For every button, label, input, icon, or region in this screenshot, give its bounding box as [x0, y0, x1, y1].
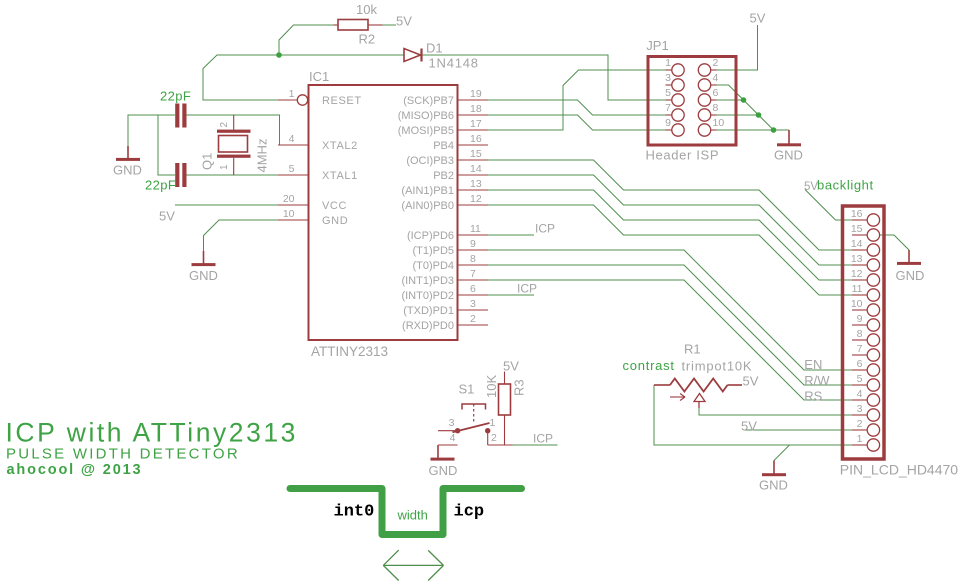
svg-text:ICP: ICP	[533, 432, 553, 446]
svg-text:1: 1	[219, 164, 230, 170]
svg-text:contrast: contrast	[623, 358, 675, 373]
svg-text:3: 3	[665, 72, 671, 84]
svg-text:13: 13	[470, 178, 482, 190]
svg-text:1: 1	[289, 88, 295, 100]
svg-text:icp: icp	[454, 503, 485, 522]
svg-text:(INT0)PD2: (INT0)PD2	[401, 290, 454, 302]
svg-text:16: 16	[851, 208, 863, 220]
svg-text:6: 6	[470, 283, 476, 295]
svg-text:GND: GND	[774, 148, 803, 163]
svg-text:14: 14	[851, 238, 863, 250]
svg-text:3: 3	[857, 403, 863, 415]
svg-text:(MOSI)PB5: (MOSI)PB5	[398, 125, 454, 137]
svg-text:6: 6	[713, 87, 719, 99]
svg-text:Header ISP: Header ISP	[646, 148, 720, 163]
svg-text:2: 2	[857, 418, 863, 430]
svg-text:8: 8	[857, 328, 863, 340]
svg-text:4: 4	[450, 432, 456, 444]
svg-text:RS: RS	[804, 389, 822, 404]
svg-text:backlight: backlight	[817, 178, 874, 193]
svg-text:(RXD)PD0: (RXD)PD0	[402, 320, 454, 332]
svg-text:R2: R2	[359, 31, 376, 46]
svg-text:10: 10	[851, 298, 863, 310]
svg-text:1N4148: 1N4148	[429, 56, 479, 71]
svg-text:2: 2	[713, 57, 719, 69]
svg-text:int0: int0	[334, 503, 375, 522]
svg-text:(AIN0)PB0: (AIN0)PB0	[401, 200, 454, 212]
svg-text:PB2: PB2	[433, 170, 454, 182]
svg-text:2: 2	[491, 432, 497, 444]
svg-text:GND: GND	[113, 163, 142, 178]
svg-text:JP1: JP1	[646, 38, 668, 53]
svg-text:XTAL2: XTAL2	[322, 140, 358, 152]
svg-text:18: 18	[470, 103, 482, 115]
svg-text:5: 5	[857, 373, 863, 385]
svg-text:13: 13	[851, 253, 863, 265]
svg-text:10: 10	[283, 208, 295, 220]
svg-text:8: 8	[470, 253, 476, 265]
svg-text:S1: S1	[459, 382, 475, 397]
svg-text:12: 12	[851, 268, 863, 280]
svg-text:ICP with ATTiny2313: ICP with ATTiny2313	[6, 418, 298, 448]
svg-text:5V: 5V	[159, 209, 175, 224]
svg-text:5V: 5V	[743, 374, 759, 389]
svg-text:20: 20	[283, 193, 295, 205]
svg-text:PULSE WIDTH DETECTOR: PULSE WIDTH DETECTOR	[6, 445, 240, 462]
svg-text:R/W: R/W	[804, 373, 830, 388]
svg-text:5V: 5V	[741, 419, 757, 434]
svg-text:ATTINY2313: ATTINY2313	[311, 344, 388, 359]
svg-text:GND: GND	[189, 268, 218, 283]
svg-text:VCC: VCC	[322, 200, 347, 212]
svg-text:PIN_LCD_HD4470: PIN_LCD_HD4470	[840, 462, 958, 478]
svg-text:5: 5	[289, 163, 295, 175]
svg-text:2: 2	[219, 122, 230, 128]
svg-text:GND: GND	[896, 268, 925, 283]
svg-text:11: 11	[470, 223, 481, 235]
svg-text:D1: D1	[426, 41, 443, 56]
svg-text:4: 4	[713, 72, 719, 84]
svg-text:10k: 10k	[356, 2, 377, 17]
svg-text:3: 3	[470, 298, 476, 310]
svg-text:(ICP)PD6: (ICP)PD6	[407, 230, 454, 242]
svg-text:15: 15	[851, 223, 863, 235]
svg-text:12: 12	[470, 193, 482, 205]
svg-text:EN: EN	[804, 357, 822, 372]
svg-text:10K: 10K	[484, 375, 499, 398]
svg-text:(INT1)PD3: (INT1)PD3	[401, 275, 454, 287]
svg-text:trimpot10K: trimpot10K	[682, 359, 753, 374]
svg-text:R3: R3	[512, 379, 527, 396]
svg-text:GND: GND	[759, 477, 788, 492]
svg-text:7: 7	[470, 268, 476, 280]
svg-text:7: 7	[665, 102, 671, 114]
svg-text:4: 4	[289, 133, 295, 145]
svg-text:(T0)PD4: (T0)PD4	[412, 260, 454, 272]
svg-text:10: 10	[713, 117, 725, 129]
svg-text:1: 1	[490, 417, 496, 429]
svg-text:6: 6	[857, 358, 863, 370]
svg-text:5V: 5V	[503, 359, 519, 374]
svg-text:4: 4	[857, 388, 863, 400]
svg-text:width: width	[397, 508, 428, 523]
svg-text:3: 3	[449, 417, 455, 429]
svg-text:1: 1	[857, 433, 863, 445]
svg-text:11: 11	[852, 283, 863, 295]
svg-text:9: 9	[470, 238, 476, 250]
svg-text:5V: 5V	[750, 11, 766, 26]
svg-text:1: 1	[665, 57, 671, 69]
svg-text:ICP: ICP	[517, 282, 537, 296]
svg-text:16: 16	[470, 133, 482, 145]
svg-text:(SCK)PB7: (SCK)PB7	[403, 95, 454, 107]
svg-text:XTAL1: XTAL1	[322, 170, 358, 182]
svg-text:9: 9	[857, 313, 863, 325]
svg-text:Q1: Q1	[200, 153, 215, 170]
svg-text:22pF: 22pF	[160, 89, 191, 104]
svg-text:15: 15	[470, 148, 482, 160]
svg-text:14: 14	[470, 163, 482, 175]
svg-text:RESET: RESET	[322, 95, 362, 107]
svg-text:(MISO)PB6: (MISO)PB6	[398, 110, 454, 122]
svg-text:(OCI)PB3: (OCI)PB3	[406, 155, 454, 167]
svg-text:GND: GND	[322, 215, 348, 227]
svg-text:5V: 5V	[396, 14, 412, 29]
svg-text:5: 5	[665, 87, 671, 99]
svg-text:GND: GND	[429, 463, 458, 478]
svg-text:9: 9	[665, 117, 671, 129]
svg-text:22pF: 22pF	[145, 178, 176, 193]
svg-text:17: 17	[470, 118, 482, 130]
svg-text:(T1)PD5: (T1)PD5	[412, 245, 454, 257]
svg-text:(TXD)PD1: (TXD)PD1	[403, 305, 454, 317]
svg-text:19: 19	[470, 88, 482, 100]
svg-text:2: 2	[470, 313, 476, 325]
svg-text:IC1: IC1	[309, 69, 329, 84]
svg-text:4MHz: 4MHz	[255, 139, 270, 173]
svg-text:7: 7	[857, 343, 863, 355]
svg-text:ahocool @ 2013: ahocool @ 2013	[7, 462, 143, 478]
svg-text:8: 8	[713, 102, 719, 114]
svg-text:R1: R1	[684, 342, 701, 357]
svg-text:(AIN1)PB1: (AIN1)PB1	[401, 185, 454, 197]
svg-text:PB4: PB4	[433, 140, 454, 152]
svg-text:ICP: ICP	[535, 222, 555, 236]
